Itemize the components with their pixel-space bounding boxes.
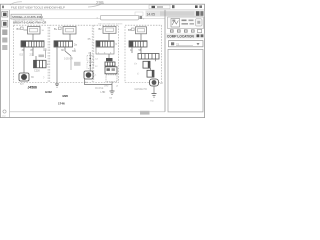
node B3 label [17, 27, 24, 31]
connector bar X5 [129, 41, 147, 47]
canvas top border [10, 17, 165, 19]
menu separator [1, 9, 205, 11]
ground G3 [109, 91, 115, 100]
wire chain S4 [155, 59, 157, 61]
tool icon 2 [2, 21, 8, 28]
node B4 label [54, 27, 61, 31]
svg-text:nnn nn nnnn nnn nnnnn: nnn nn nnnn nnn nnnnn [98, 23, 123, 25]
connector bar X6 [138, 54, 159, 60]
connector bar X1 [21, 41, 44, 47]
fuse box F3 [103, 26, 116, 33]
thumbnail [171, 19, 180, 28]
diagram header text [13, 19, 46, 25]
svg-text:(-: (- [138, 71, 140, 75]
wire X1 pin30 down [23, 47, 25, 56]
module K1 [34, 60, 50, 72]
wire F3 to X3 [108, 33, 110, 40]
wire F2 to X2 [69, 34, 71, 40]
box A [143, 61, 150, 68]
tool icon 5 [2, 45, 7, 50]
pin marks under X3 [98, 52, 112, 54]
dotted component A3 [106, 75, 117, 82]
panel list box [168, 49, 203, 112]
wire to module K1 [35, 56, 37, 60]
section box S2 [50, 25, 92, 82]
svg-text:1746: 1746 [58, 102, 65, 106]
wire X3 stack [108, 54, 110, 58]
node label S4 [128, 28, 134, 32]
stack box K3 [105, 67, 117, 74]
panel header box [168, 17, 204, 29]
ground G302 [45, 84, 59, 94]
lamp E1 [150, 79, 164, 86]
motor M1 [19, 73, 45, 86]
toolbar row [135, 11, 205, 17]
section box S3 [94, 25, 119, 82]
box B [147, 70, 154, 77]
bottom icon [3, 110, 6, 113]
svg-text:J4566: J4566 [28, 86, 38, 90]
pin labels X5 [130, 49, 142, 52]
wire X2 left down to ground [56, 47, 58, 84]
section box S4 [125, 25, 162, 82]
fuse box F2 [63, 27, 76, 35]
switch wire diagonal S2 [65, 47, 77, 70]
title bar controls right [149, 5, 202, 9]
tool icon 4 [2, 38, 7, 43]
svg-text:star: star [2, 115, 6, 118]
status bar mark [140, 111, 150, 115]
header combo box center [97, 15, 146, 25]
panel tabs row [170, 29, 202, 32]
pin labels X2 [61, 43, 77, 52]
canvas right border [164, 10, 166, 112]
text marks [182, 20, 187, 22]
label box S2 [74, 62, 81, 66]
node label S3 [99, 27, 103, 31]
stub wire right S1 [45, 51, 47, 59]
svg-text:BRGHT-2-GANG-FM-I-CR: BRGHT-2-GANG-FM-I-CR [13, 21, 46, 25]
wires X5 down [131, 47, 133, 53]
menu bar text [2, 5, 65, 9]
window frame [0, 4, 204, 117]
svg-text:G302: G302 [45, 90, 52, 94]
model combo box [11, 14, 43, 19]
pin labels X1 [22, 48, 47, 52]
wire M2 to right [85, 79, 113, 85]
wire F4 to X5 [140, 34, 142, 40]
svg-text:14.05: 14.05 [147, 12, 156, 16]
svg-text:LHD: LHD [104, 85, 109, 87]
fuse box F1 [24, 27, 45, 35]
svg-text:B5: B5 [128, 28, 132, 32]
left tool strip [2, 10, 10, 118]
annotation 298 top center [10, 0, 104, 7]
wire labels [20, 49, 48, 57]
motor M2 [84, 71, 97, 84]
svg-text:0.35 GR: 0.35 GR [64, 58, 73, 61]
svg-text:C230: C230 [34, 70, 40, 73]
ground G5 [150, 94, 157, 103]
section box S1 [14, 25, 49, 82]
svg-text:MASSE: MASSE [95, 87, 104, 90]
wire F1 to X1 [32, 34, 34, 40]
svg-text:B+: B+ [54, 27, 58, 31]
svg-text:COMP LOCATION: COMP LOCATION [167, 35, 194, 39]
connector bar X2 [54, 41, 73, 47]
svg-text:B2: B2 [99, 27, 103, 31]
tool icon 3 [2, 30, 7, 36]
wire to motor M1 [23, 56, 25, 73]
canvas bottom border [10, 111, 165, 113]
tool icon 1 [2, 12, 8, 18]
wire A3 to ground [111, 82, 113, 91]
connector bar X3 [96, 41, 114, 47]
wire lamp to ground [153, 86, 155, 94]
svg-text:FILE EDIT VIEW TOOLS WINDOW HE: FILE EDIT VIEW TOOLS WINDOW HELP [11, 5, 65, 9]
svg-text:M26: M26 [63, 94, 69, 98]
fuse box F4 [136, 27, 147, 34]
relay switch K2 dashed [87, 52, 99, 71]
svg-text:B3: B3 [17, 27, 21, 31]
svg-text:LHD: LHD [101, 91, 106, 94]
svg-text:MASSE HD: MASSE HD [135, 88, 148, 91]
wire X1 pin87 down [32, 47, 34, 56]
small element S1 right [39, 55, 45, 58]
search field [169, 41, 204, 47]
panel bold header row [166, 33, 205, 38]
stack connector X4 [105, 58, 115, 66]
housing box under X3 [96, 47, 114, 54]
